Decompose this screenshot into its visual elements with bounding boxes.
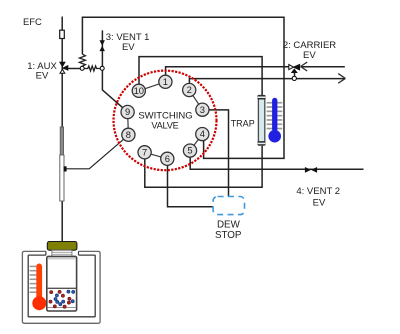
carrier inlet open arrowhead [301, 62, 308, 71]
svg-text:10: 10 [134, 85, 144, 96]
port 5 [183, 144, 196, 157]
svg-text:TRAP: TRAP [231, 118, 255, 128]
port 7 [138, 146, 151, 159]
svg-text:8: 8 [126, 129, 131, 140]
svg-text:EV: EV [313, 198, 326, 209]
svg-text:5: 5 [187, 145, 192, 156]
port 1 [159, 75, 172, 88]
port 3 [196, 103, 209, 116]
svg-text:9: 9 [125, 106, 130, 117]
pressure regulator on EFC line [60, 30, 65, 38]
oven box outer wall [22, 251, 100, 323]
oven box inner wall [28, 255, 95, 317]
oven wall end caps [46, 251, 79, 255]
wire carrier inlet [301, 66, 345, 68]
TRAP tube [257, 95, 265, 146]
svg-text:EV: EV [303, 50, 316, 61]
wire carrier top transfer line [82, 17, 284, 158]
svg-text:7: 7 [142, 146, 147, 157]
wire port3 to dew stop [203, 110, 229, 197]
svg-text:1: 1 [163, 76, 168, 87]
wire port7 to trap bottom [145, 146, 262, 188]
red switching valve circle [114, 71, 217, 171]
wire port8 to needle [66, 135, 128, 169]
svg-text:EFC: EFC [23, 16, 42, 27]
port 2 [183, 83, 196, 96]
vial shoulder shading [48, 258, 76, 260]
port circle A (restrictor inlet) [80, 66, 84, 70]
wire port2 riser to column out [189, 79, 344, 91]
valve 1: AUX EV [60, 62, 68, 73]
vial cap [47, 242, 77, 251]
restrictor vertical zigzag [79, 54, 85, 66]
restrictor horizontal zigzag [84, 66, 100, 71]
needle assembly [60, 127, 67, 201]
sample dots in vial [49, 290, 75, 308]
link port2-port3 [189, 90, 202, 110]
svg-text:EV: EV [36, 71, 49, 82]
port 9 [121, 105, 134, 118]
port 10 [132, 84, 145, 97]
thermometer (trap) [267, 98, 283, 143]
svg-text:6: 6 [165, 153, 170, 164]
valve 4: VENT2 EV [305, 167, 317, 173]
wire EFC supply line [61, 17, 63, 246]
port 4 [196, 128, 209, 141]
wire port6 to dew stop [168, 159, 214, 207]
wire VENT1 line [102, 30, 127, 112]
DEW STOP box [213, 197, 244, 215]
wire carrier valve drop [294, 72, 296, 76]
valve 3: VENT1 EV [100, 40, 105, 51]
svg-text:DEW: DEW [217, 219, 241, 230]
wire port1 riser to carrier valve [166, 67, 289, 82]
svg-text:4: 4 [200, 128, 205, 139]
vial neck [52, 250, 72, 256]
port circle B (vent1 junction) [100, 66, 104, 70]
port 6 [161, 152, 174, 165]
internal port links [128, 82, 203, 159]
port 8 [122, 128, 135, 141]
column out open arrowhead [338, 74, 345, 84]
vial body [47, 256, 77, 311]
valve ports 1-10 [121, 75, 209, 165]
valve 2: CARRIER EV [289, 64, 300, 72]
svg-text:4: VENT 2: 4: VENT 2 [296, 186, 340, 197]
svg-text:VALVE: VALVE [151, 121, 178, 131]
wire port10 to trap top [139, 57, 262, 96]
vial bottom line [48, 307, 76, 309]
svg-text:3: 3 [200, 104, 205, 115]
wire port5 to vent2 [190, 151, 363, 169]
vial liquid level [47, 287, 76, 289]
svg-text:EV: EV [122, 42, 135, 53]
svg-text:STOP: STOP [215, 230, 242, 241]
svg-text:2: 2 [187, 84, 192, 95]
port circle below carrier valve [292, 76, 296, 80]
oven thermometer [30, 264, 47, 311]
link port8-port9 [127, 112, 130, 135]
wire AUX valve branch [63, 68, 80, 70]
link port10-port1 [139, 82, 166, 91]
link port6-port7 [145, 152, 168, 159]
link port4-port5 [190, 134, 202, 151]
